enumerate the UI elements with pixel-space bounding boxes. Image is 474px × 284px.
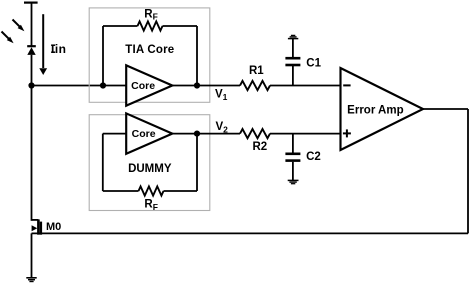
op-amp DUMMY Core	[126, 113, 172, 153]
wire	[163, 25, 198, 27]
wire	[31, 3, 33, 46]
svg-text:C1: C1	[306, 57, 321, 69]
wire	[172, 85, 240, 87]
capacitor C2	[285, 154, 300, 161]
node TIA output junction	[194, 82, 200, 88]
ground (below C2)	[288, 180, 299, 183]
wire	[164, 190, 198, 192]
photodiode	[27, 46, 36, 55]
wire	[32, 85, 127, 87]
wire	[172, 133, 240, 135]
op-amp U1 Error Amp	[341, 68, 424, 150]
wire	[196, 134, 198, 191]
current arrow Iin	[39, 14, 47, 75]
svg-text:Core: Core	[131, 80, 155, 92]
svg-text:TIA Core: TIA Core	[125, 44, 174, 56]
wire	[270, 85, 341, 87]
wire	[32, 232, 469, 234]
resistor RF (TIA feedback)	[138, 21, 163, 30]
resistor R1	[240, 81, 270, 90]
svg-text:M0: M0	[46, 221, 61, 233]
DUMMY block box	[89, 115, 210, 211]
wire	[103, 133, 126, 135]
node DUMMY output junction	[194, 131, 200, 137]
svg-text:DUMMY: DUMMY	[128, 163, 172, 175]
wire	[292, 39, 294, 57]
wire	[467, 109, 469, 233]
transistor M0	[32, 219, 41, 234]
svg-text:Core: Core	[132, 128, 156, 140]
wire	[292, 162, 294, 181]
wire	[103, 190, 139, 192]
wire	[102, 134, 104, 191]
ground (below M0)	[26, 278, 36, 282]
wire	[423, 108, 468, 110]
TIA block box	[89, 8, 210, 102]
capacitor C1	[285, 58, 300, 65]
light arrow 1	[13, 20, 25, 32]
resistor RF (DUMMY feedback)	[139, 186, 164, 195]
wire	[103, 25, 138, 27]
pin minus	[343, 84, 350, 86]
node input junction	[28, 82, 34, 88]
light arrow 2	[2, 32, 14, 44]
supply terminal	[24, 1, 38, 3]
resistor R2	[240, 129, 270, 138]
svg-text:C2: C2	[306, 151, 321, 163]
ground (above C1, flipped)	[288, 35, 298, 38]
wire	[270, 133, 341, 135]
node TIA input junction	[100, 82, 106, 88]
wire	[292, 134, 294, 153]
wire	[292, 66, 294, 86]
op-amp TIA Core	[126, 65, 172, 105]
svg-text:R2: R2	[252, 141, 267, 153]
wire	[31, 233, 33, 277]
wire	[31, 55, 33, 221]
svg-text:R1: R1	[249, 65, 264, 77]
svg-text:Iin: Iin	[51, 42, 67, 56]
svg-text:Error Amp: Error Amp	[347, 104, 403, 116]
wire	[102, 26, 104, 86]
pin plus	[343, 129, 351, 137]
wire	[196, 26, 198, 86]
